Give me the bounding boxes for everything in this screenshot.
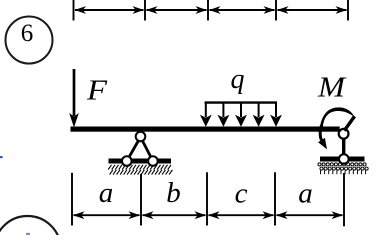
svg-text:b: b [166,177,181,209]
svg-text:c: c [235,177,248,209]
svg-text:q: q [231,64,245,95]
svg-text:a: a [99,177,114,209]
svg-text:a: a [298,177,313,209]
svg-text:6: 6 [21,20,34,47]
svg-text:F: F [86,76,108,107]
svg-text:M: M [317,72,347,103]
